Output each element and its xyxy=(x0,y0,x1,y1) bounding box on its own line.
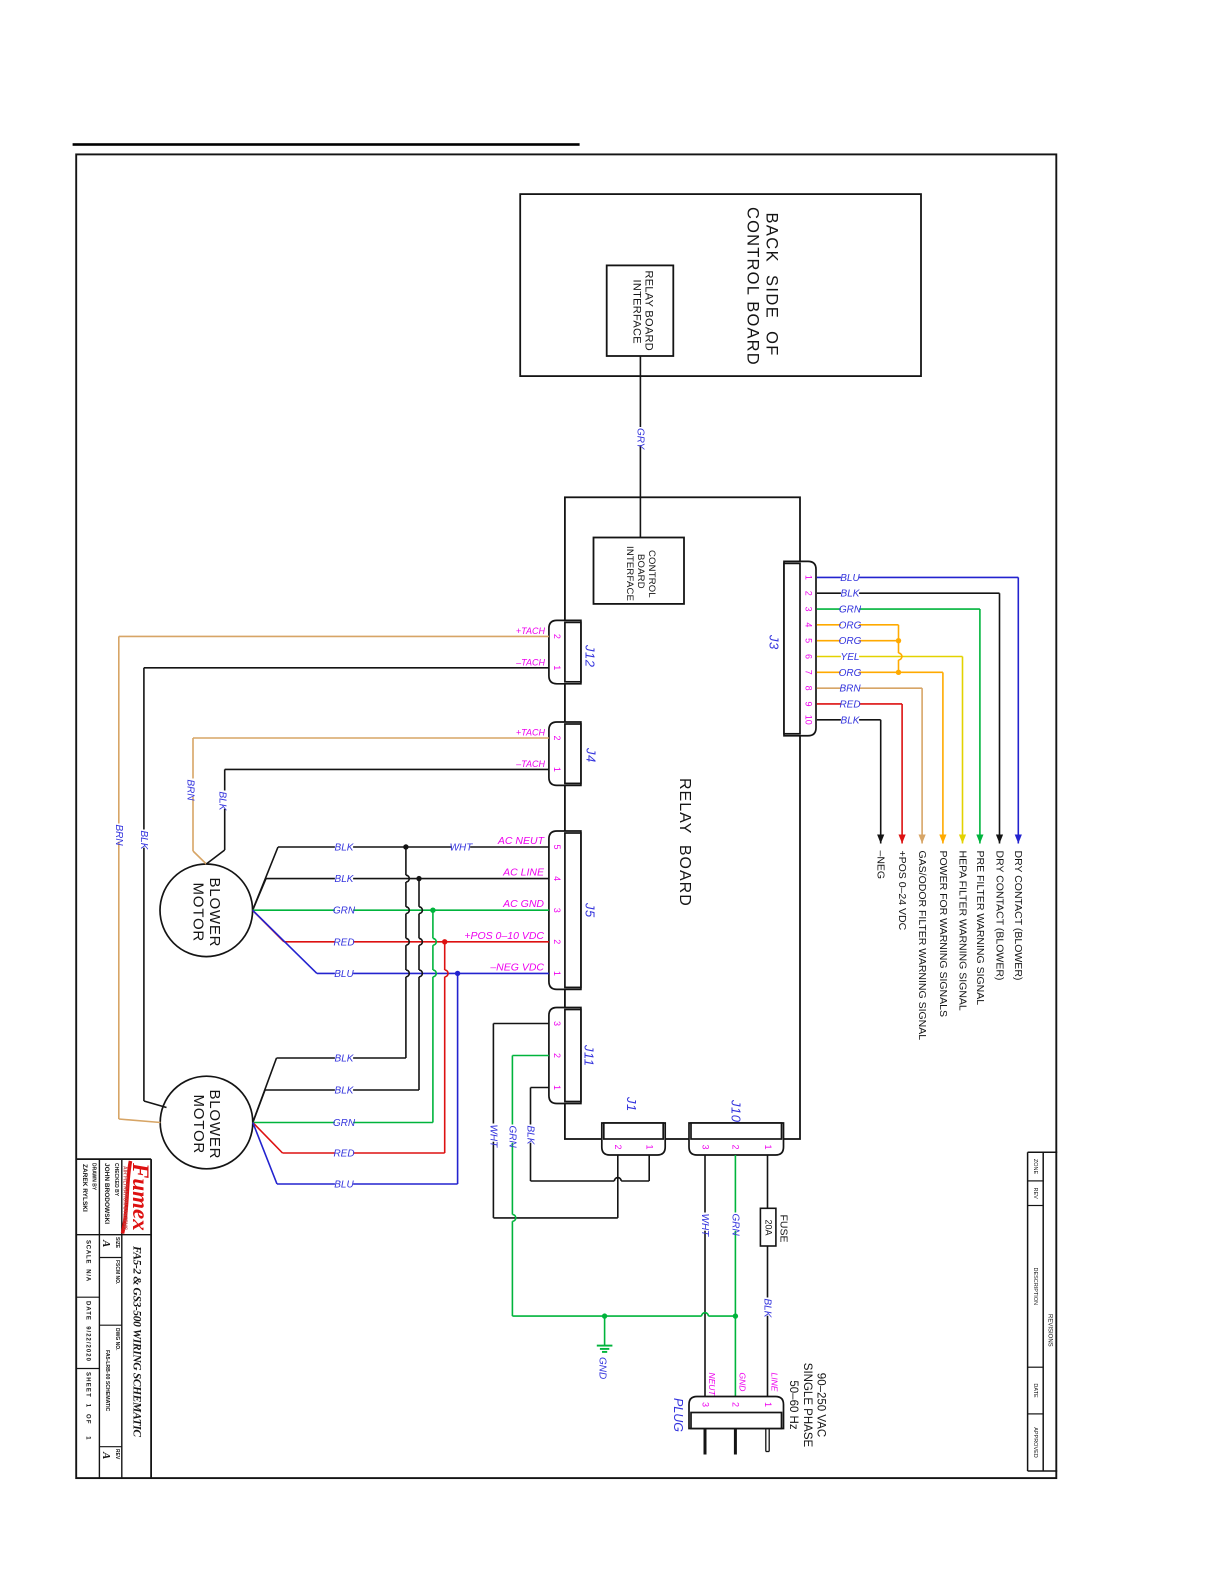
junction BLU bus at M1 row xyxy=(455,971,460,976)
arrow HEPA FILTER WARNING SIGNAL xyxy=(959,835,966,844)
wire motor M2 BLU xyxy=(253,1123,277,1185)
svg-text:BLK: BLK xyxy=(525,1126,536,1146)
svg-text:DATE 9/22/2020: DATE 9/22/2020 xyxy=(85,1301,91,1362)
svg-text:BOARD: BOARD xyxy=(635,554,646,589)
svg-text:3: 3 xyxy=(700,1144,710,1149)
connector J10 xyxy=(689,1123,784,1155)
arrow POWER FOR WARNING SIGNALS xyxy=(939,835,946,844)
svg-text:RED: RED xyxy=(333,937,354,948)
wire bus RED vertical to motor M2 xyxy=(444,942,446,970)
label BLK on J11 wire xyxy=(526,1125,536,1143)
svg-text:GRN: GRN xyxy=(506,1126,517,1149)
label BRN on J12 tach wire xyxy=(114,824,124,842)
svg-text:MOTOR: MOTOR xyxy=(190,1095,207,1155)
label BLK on M1 wire xyxy=(335,843,353,853)
svg-text:8: 8 xyxy=(803,686,813,691)
svg-text:BLU: BLU xyxy=(840,573,860,584)
svg-text:SIZE: SIZE xyxy=(114,1237,120,1249)
title block border xyxy=(76,1158,151,1160)
wire WHT J11 pin3 to J1 pin2 xyxy=(493,1023,549,1025)
label WHT on J11 wire xyxy=(488,1124,498,1142)
box BACK SIDE OF CONTROL BOARD xyxy=(520,194,921,376)
junction GRN bus at M1 row xyxy=(430,908,435,913)
svg-text:DRAWN BY: DRAWN BY xyxy=(91,1163,97,1191)
junction BLK bus at M1 row xyxy=(416,876,421,881)
svg-text:WHT: WHT xyxy=(699,1214,710,1238)
wire J3 pin 5 ORG xyxy=(817,640,899,642)
svg-text:2: 2 xyxy=(552,1053,562,1058)
svg-text:J11: J11 xyxy=(582,1044,597,1067)
wire J3 pin 8 BRN xyxy=(817,687,922,689)
svg-text:2: 2 xyxy=(731,1402,741,1407)
junction GRN at plug pin2 wire xyxy=(733,1313,738,1318)
label BLK on M1 wire xyxy=(335,874,353,884)
arrow DRY CONTACT (BLOWER) xyxy=(1015,835,1022,844)
svg-text:+POS 0–24 VDC: +POS 0–24 VDC xyxy=(896,851,908,931)
svg-text:BLOWER: BLOWER xyxy=(206,1090,223,1160)
svg-text:+POS 0–10 VDC: +POS 0–10 VDC xyxy=(464,930,544,942)
svg-text:1: 1 xyxy=(645,1144,655,1149)
svg-text:GRN: GRN xyxy=(333,1118,356,1129)
box CONTROL BOARD INTERFACE U-CBI xyxy=(594,538,685,604)
svg-text:BLK: BLK xyxy=(335,843,355,854)
wire motor M2 BLK xyxy=(253,1090,265,1123)
svg-text:ORG: ORG xyxy=(839,636,862,647)
wire J3 pin 2 BLK xyxy=(817,592,1000,594)
svg-text:FA5-2 & GS3-500 WIRING SCHEMAT: FA5-2 & GS3-500 WIRING SCHEMATIC xyxy=(131,1245,143,1437)
svg-text:1: 1 xyxy=(763,1144,773,1149)
label WHT on AC NEUT wire xyxy=(452,843,470,853)
label ORG on J3 pin 7 wire xyxy=(841,668,859,678)
junction RED bus at M1 row xyxy=(442,939,447,944)
svg-text:DWG NO.: DWG NO. xyxy=(114,1328,120,1351)
arrow DRY CONTACT (BLOWER) xyxy=(996,835,1003,844)
junction GRN at ground tap xyxy=(602,1313,607,1318)
label RED on M1 wire xyxy=(335,938,353,948)
plug prong 1 (wide blade) xyxy=(765,1429,767,1452)
svg-text:RELAY BOARD: RELAY BOARD xyxy=(642,271,654,352)
svg-text:3: 3 xyxy=(803,607,813,612)
svg-text:INTERFACE: INTERFACE xyxy=(631,280,643,344)
svg-text:GND: GND xyxy=(737,1373,747,1392)
label GRN on J10 pin2 wire xyxy=(730,1213,740,1231)
plug prong 3 xyxy=(704,1429,707,1455)
svg-text:YEL: YEL xyxy=(841,652,860,663)
drawing border frame xyxy=(76,154,1056,1478)
wire bus BLK vertical to motor M2 xyxy=(405,847,407,875)
svg-text:3: 3 xyxy=(700,1402,710,1407)
wire +TACH J4 pin2 BRN xyxy=(193,737,549,739)
arrow &#8211;NEG xyxy=(877,835,884,844)
wire motor M2 GRN xyxy=(253,1122,433,1124)
svg-text:BLK: BLK xyxy=(335,1054,355,1065)
wire J3 pin 10 BLK xyxy=(817,719,881,721)
junction ORG at J3 pin5 xyxy=(896,638,901,643)
wire GRN ground bus horizontal xyxy=(512,1315,701,1317)
svg-text:GRY: GRY xyxy=(634,428,645,451)
connector J3 xyxy=(784,561,816,735)
arrow PRE FILTER WARNING SIGNAL xyxy=(976,835,983,844)
svg-text:1: 1 xyxy=(763,1402,773,1407)
svg-text:3: 3 xyxy=(552,1021,562,1026)
svg-text:+TACH: +TACH xyxy=(516,626,546,636)
blower motor M1 xyxy=(160,864,253,957)
svg-text:GRN: GRN xyxy=(333,906,356,917)
svg-text:APPROVED: APPROVED xyxy=(1032,1427,1038,1458)
svg-text:CONTROL BOARD: CONTROL BOARD xyxy=(743,207,761,366)
svg-text:ZAREK RYLSKI: ZAREK RYLSKI xyxy=(81,1164,88,1212)
svg-text:Fumex: Fumex xyxy=(128,1162,153,1231)
svg-text:INTERFACE: INTERFACE xyxy=(624,546,635,601)
label BLK on M2 wire xyxy=(335,1054,353,1064)
svg-text:AC GND: AC GND xyxy=(502,898,544,910)
connector J12 xyxy=(549,620,581,683)
svg-text:+TACH: +TACH xyxy=(516,728,546,738)
wire WHT J10 pin3 to plug pin3 xyxy=(704,1155,706,1397)
svg-text:PRE FILTER WARNING SIGNAL: PRE FILTER WARNING SIGNAL xyxy=(974,851,986,1006)
label GRN on M2 wire xyxy=(335,1118,353,1128)
svg-text:BLK: BLK xyxy=(841,715,861,726)
svg-text:CHECKED BY: CHECKED BY xyxy=(113,1163,119,1197)
svg-text:POWER FOR WARNING SIGNALS: POWER FOR WARNING SIGNALS xyxy=(937,851,949,1017)
box RELAY BOARD INTERFACE U-RBI xyxy=(607,265,674,356)
wire J3 pin 3 GRN xyxy=(817,608,980,610)
connector J1 xyxy=(602,1123,665,1155)
svg-text:FA5-LRB-00 SCHEMATIC: FA5-LRB-00 SCHEMATIC xyxy=(104,1350,110,1412)
svg-text:AIR FILTRATION SYSTEMS: AIR FILTRATION SYSTEMS xyxy=(121,1166,127,1231)
svg-text:J5: J5 xyxy=(583,902,598,918)
svg-text:BLK: BLK xyxy=(762,1299,773,1319)
svg-text:–TACH: –TACH xyxy=(515,657,545,667)
svg-text:BLK: BLK xyxy=(138,831,149,851)
svg-text:GRN: GRN xyxy=(729,1214,740,1237)
label BLK on fuse wire xyxy=(763,1298,773,1316)
wire GRN ground stub xyxy=(604,1316,606,1346)
svg-text:BLOWER: BLOWER xyxy=(206,878,223,948)
svg-text:90–250 VAC: 90–250 VAC xyxy=(815,1373,827,1437)
label BLK on J12 tach wire xyxy=(139,830,149,848)
svg-text:PLUG: PLUG xyxy=(671,1398,685,1432)
arrow GAS/ODOR FILTER WARNING SIGNAL xyxy=(919,835,926,844)
label RED on M2 wire xyxy=(335,1149,353,1159)
svg-text:GRN: GRN xyxy=(839,605,862,616)
wire J3 pin 7 ORG xyxy=(817,671,943,673)
svg-text:7: 7 xyxy=(803,670,813,675)
connector J5 xyxy=(549,831,581,989)
label BLU on M1 wire xyxy=(335,969,353,979)
wire bus BLU vertical to motor M2 xyxy=(457,973,459,1184)
svg-text:1: 1 xyxy=(552,971,562,976)
svg-text:REV: REV xyxy=(1032,1188,1038,1200)
label GRN on M1 wire xyxy=(335,906,353,916)
wire BLK J10 pin1 to fuse xyxy=(767,1155,769,1208)
title block cell lines row SCALE/DATE/SHEET xyxy=(76,1296,99,1298)
svg-text:J1: J1 xyxy=(624,1096,639,1112)
svg-text:1: 1 xyxy=(552,1085,562,1090)
svg-text:4: 4 xyxy=(552,876,562,881)
svg-text:20A: 20A xyxy=(764,1220,774,1236)
wire motor M2 BLK xyxy=(253,1058,277,1123)
svg-text:1: 1 xyxy=(552,665,562,670)
svg-text:MOTOR: MOTOR xyxy=(190,883,207,943)
svg-text:BLK: BLK xyxy=(335,1086,355,1097)
svg-text:REV: REV xyxy=(114,1449,120,1460)
connector J4 xyxy=(549,722,581,785)
svg-text:BRN: BRN xyxy=(185,780,196,802)
svg-text:6: 6 xyxy=(803,654,813,659)
svg-text:CONTROL: CONTROL xyxy=(646,550,657,598)
svg-text:SCALE N/A: SCALE N/A xyxy=(85,1240,91,1282)
svg-text:ORG: ORG xyxy=(839,668,862,679)
svg-text:DRY CONTACT (BLOWER): DRY CONTACT (BLOWER) xyxy=(1012,851,1024,981)
svg-text:WHT: WHT xyxy=(487,1125,498,1149)
blower motor M2 xyxy=(160,1076,253,1169)
wire J1 pin2 stub xyxy=(617,1155,619,1218)
wire -TACH J4 pin1 BLK xyxy=(225,768,549,770)
svg-text:BLU: BLU xyxy=(334,969,354,980)
svg-text:DRY CONTACT (BLOWER): DRY CONTACT (BLOWER) xyxy=(993,851,1005,981)
svg-text:–NEG: –NEG xyxy=(875,851,887,880)
svg-text:ORG: ORG xyxy=(839,620,862,631)
wire J1 pin1 stub xyxy=(648,1155,650,1181)
svg-text:–TACH: –TACH xyxy=(515,759,545,769)
label ORG on J3 pin 5 wire xyxy=(841,636,859,646)
svg-text:2: 2 xyxy=(552,735,562,740)
label BLK on J3 pin 10 wire xyxy=(841,716,859,726)
svg-text:DESCRIPTION: DESCRIPTION xyxy=(1032,1268,1038,1306)
label WHT on J10 pin3 wire xyxy=(700,1213,710,1231)
svg-text:J10: J10 xyxy=(729,1099,744,1123)
svg-text:RED: RED xyxy=(839,699,860,710)
svg-text:BLK: BLK xyxy=(216,792,227,812)
label ORG on J3 pin 4 wire xyxy=(841,621,859,631)
wire motor M1 BLK to J5 pin 5 xyxy=(253,847,278,910)
svg-text:AC NEUT: AC NEUT xyxy=(497,835,546,847)
wire bus GRN vertical to motor M2 xyxy=(432,910,434,938)
wire +TACH J12 pin2 BRN xyxy=(119,635,549,637)
wire J3 pin 6 YEL xyxy=(817,656,963,658)
svg-text:–NEG VDC: –NEG VDC xyxy=(489,961,544,973)
label BLK on M2 wire xyxy=(335,1086,353,1096)
svg-text:BRN: BRN xyxy=(113,825,124,847)
wire motor M1 RED to J5 pin 2 xyxy=(253,910,284,942)
label BLU on J3 pin 1 wire xyxy=(841,573,859,583)
svg-text:J4: J4 xyxy=(584,747,599,763)
svg-text:A: A xyxy=(100,1451,112,1459)
top rule line xyxy=(73,143,580,146)
svg-text:5: 5 xyxy=(803,638,813,643)
fuse F1 20A xyxy=(760,1208,776,1246)
svg-text:LINE: LINE xyxy=(769,1373,779,1392)
junction ORG at J3 pin7 xyxy=(896,670,901,675)
ground symbol xyxy=(597,1345,613,1347)
wire GRN J11 pin2 to GND bus xyxy=(512,1055,549,1057)
wire J3 pin 1 BLU xyxy=(817,576,1018,578)
wire J3 pin 9 RED xyxy=(817,703,902,705)
wire GRY interface link xyxy=(639,356,641,538)
svg-text:5: 5 xyxy=(552,844,562,849)
svg-text:10: 10 xyxy=(803,715,813,725)
svg-text:GND: GND xyxy=(596,1357,607,1379)
svg-text:2: 2 xyxy=(731,1144,741,1149)
plug P1 xyxy=(689,1397,784,1429)
wire motor M1 GRN to J5 pin 3 xyxy=(253,909,549,911)
svg-text:DATE: DATE xyxy=(1032,1383,1038,1398)
label BLK on J3 pin 2 wire xyxy=(841,589,859,599)
label BRN on J4 tach wire xyxy=(186,779,196,797)
svg-text:1: 1 xyxy=(552,767,562,772)
svg-text:WHT: WHT xyxy=(450,843,474,854)
svg-text:ZONE: ZONE xyxy=(1032,1159,1038,1175)
wire motor M1 BLU to J5 pin 1 xyxy=(253,910,317,973)
arrow +POS 0&#8211;24 VDC xyxy=(899,835,906,844)
wire ORG bus vertical J3 pins 4-5-7 xyxy=(898,625,900,653)
svg-text:FUSE: FUSE xyxy=(777,1215,789,1243)
svg-text:BRN: BRN xyxy=(839,684,861,695)
svg-text:NEUT: NEUT xyxy=(707,1373,717,1397)
svg-text:GAS/ODOR FILTER WARNING SIGNAL: GAS/ODOR FILTER WARNING SIGNAL xyxy=(916,851,928,1041)
svg-text:FSCM NO.: FSCM NO. xyxy=(114,1260,120,1285)
svg-text:BACK SIDE OF: BACK SIDE OF xyxy=(763,213,781,357)
svg-text:HEPA FILTER WARNING SIGNAL: HEPA FILTER WARNING SIGNAL xyxy=(956,851,968,1011)
svg-text:2: 2 xyxy=(552,634,562,639)
title block cell lines row SIZE/FSCM/DWG/REV xyxy=(99,1257,121,1259)
svg-text:2: 2 xyxy=(552,939,562,944)
label GRN on J11 wire xyxy=(507,1125,517,1143)
svg-text:BLU: BLU xyxy=(334,1180,354,1191)
label GRN on J3 pin 3 wire xyxy=(841,605,859,615)
svg-text:SINGLE PHASE: SINGLE PHASE xyxy=(801,1363,813,1448)
revisions table xyxy=(1028,1151,1058,1153)
wire BLK fuse to plug pin1 xyxy=(767,1246,769,1397)
label YEL on J3 pin 6 wire xyxy=(841,652,859,662)
svg-text:RED: RED xyxy=(333,1149,354,1160)
svg-text:BLK: BLK xyxy=(841,589,861,600)
wire motor M1 BLK to J5 pin 4 xyxy=(253,879,266,911)
junction BLK bus at M1 row xyxy=(403,844,408,849)
svg-text:4: 4 xyxy=(803,622,813,627)
label BLU on M2 wire xyxy=(335,1180,353,1190)
svg-text:50–60 Hz: 50–60 Hz xyxy=(787,1380,799,1429)
svg-text:A: A xyxy=(100,1239,112,1247)
label GRY xyxy=(635,427,645,445)
svg-text:9: 9 xyxy=(803,701,813,706)
svg-text:2: 2 xyxy=(613,1144,623,1149)
label BRN on J3 pin 8 wire xyxy=(841,684,859,694)
plug prong 2 xyxy=(734,1429,737,1455)
label BLK on J4 tach wire xyxy=(217,791,227,809)
wire motor M2 RED xyxy=(253,1123,283,1154)
wire bus BLK vertical to motor M2 xyxy=(418,879,420,907)
svg-text:3: 3 xyxy=(552,908,562,913)
svg-text:J12: J12 xyxy=(583,644,598,668)
connector J11 xyxy=(549,1008,581,1104)
wire BLK J11 pin1 to J1 pin1 xyxy=(531,1087,549,1089)
svg-text:RELAY BOARD: RELAY BOARD xyxy=(676,778,693,907)
svg-text:J3: J3 xyxy=(767,634,782,650)
svg-text:1: 1 xyxy=(803,575,813,580)
svg-text:BLK: BLK xyxy=(335,874,355,885)
svg-text:REVISIONS: REVISIONS xyxy=(1047,1314,1053,1347)
svg-text:2: 2 xyxy=(803,591,813,596)
svg-text:AC LINE: AC LINE xyxy=(502,867,545,879)
wire GRN J10 pin2 to plug pin2 xyxy=(734,1155,736,1397)
label RED on J3 pin 9 wire xyxy=(841,700,859,710)
svg-text:JOHN BRODOWSKI: JOHN BRODOWSKI xyxy=(103,1163,110,1224)
svg-text:SHEET 1 OF 1: SHEET 1 OF 1 xyxy=(85,1372,91,1441)
wire -TACH J12 pin1 BLK xyxy=(144,667,549,669)
relay board outline xyxy=(565,497,800,1139)
wire J3 pin 4 ORG xyxy=(817,624,899,626)
